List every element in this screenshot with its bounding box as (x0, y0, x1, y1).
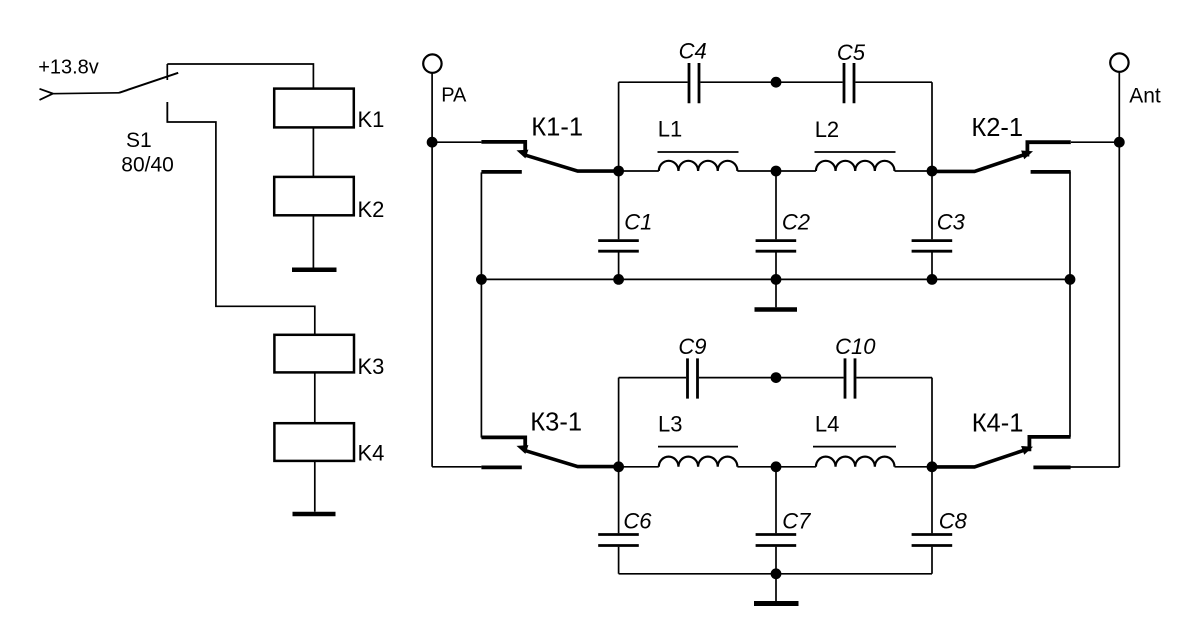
wire К2-1 top contact to Ant line (1071, 141, 1119, 143)
wire top loop right horizontal (855, 81, 932, 83)
relay coil K4 (274, 423, 384, 465)
relay contact К2-1 (932, 114, 1071, 172)
wire rail to ground bottom filter (775, 574, 777, 601)
capacitor C6 (598, 467, 652, 574)
relay contact К3-1 (481, 408, 618, 467)
wire center node to C10 (776, 377, 844, 379)
node rail C2 (771, 274, 782, 285)
wire center node to C5 (776, 81, 843, 83)
inductor L4 (813, 411, 896, 467)
ground under K2 (292, 267, 337, 272)
wire K3 to K4 (314, 372, 316, 423)
relay contact К4-1 (932, 409, 1071, 467)
capacitor C7 (756, 467, 811, 574)
relay coil K2 (274, 177, 384, 222)
relay contact К1-1 (481, 114, 618, 172)
svg-text:C3: C3 (937, 210, 966, 235)
svg-text:C7: C7 (782, 508, 811, 533)
node Ant (1114, 137, 1125, 148)
node main center top filter (771, 166, 782, 177)
svg-text:К2-1: К2-1 (971, 114, 1023, 142)
inductor L2 (815, 117, 896, 171)
ground under C2 (755, 307, 798, 312)
svg-text:C10: C10 (835, 334, 876, 359)
svg-text:C1: C1 (624, 210, 652, 235)
svg-text:C5: C5 (837, 40, 866, 65)
svg-text:C4: C4 (679, 38, 707, 63)
wire bottom loop left horizontal (619, 377, 687, 379)
wire L2 to right node (895, 170, 933, 172)
wire C4 to center node (700, 81, 776, 83)
svg-text:PA: PA (441, 85, 467, 107)
wire S1 bottom contact to K3 (167, 102, 314, 335)
switch S1 (119, 64, 178, 177)
svg-text:L4: L4 (815, 411, 839, 436)
svg-text:K3: K3 (358, 354, 385, 379)
wire top loop left horizontal (619, 81, 688, 83)
wire K1 to K2 (312, 127, 314, 176)
svg-text:+13.8v: +13.8v (38, 56, 99, 78)
node rail C1 (613, 274, 624, 285)
svg-text:C8: C8 (939, 508, 968, 533)
wire bottom loop right vertical (931, 378, 933, 467)
capacitor C2 (756, 171, 810, 279)
wire К2-1 lower contact down to rail and К4-1 (1069, 172, 1071, 437)
wire K4 to ground (314, 461, 316, 512)
node rail C7 (771, 568, 782, 579)
svg-text:K2: K2 (358, 197, 385, 222)
svg-text:L3: L3 (658, 412, 682, 437)
wire top loop right vertical (931, 82, 933, 171)
wire S1 top contact to K1 (167, 64, 313, 89)
svg-text:К3-1: К3-1 (530, 408, 582, 436)
svg-text:80/40: 80/40 (121, 154, 174, 177)
svg-text:C9: C9 (678, 334, 706, 359)
svg-text:Ant: Ant (1129, 84, 1161, 107)
wire L4 to right node (895, 466, 933, 468)
node main center bottom filter (771, 461, 782, 472)
capacitor C9 (678, 334, 706, 399)
ground under C7 (754, 601, 799, 606)
wire main line node to L1 (619, 170, 659, 172)
wire top filter ground rail (481, 278, 1070, 280)
wire main line node to L3 (619, 466, 659, 468)
capacitor C4 (679, 38, 707, 103)
node rail far-right (1065, 274, 1076, 285)
wire К4-1 lower contact to Ant line (1070, 466, 1119, 468)
svg-text:L1: L1 (658, 117, 682, 142)
wire K2 to ground (312, 215, 314, 267)
wire bottom loop right horizontal (856, 377, 932, 379)
terminal PA (423, 54, 467, 106)
wire rail to ground top filter (775, 279, 777, 307)
capacitor C3 (912, 171, 966, 279)
svg-text:S1: S1 (126, 129, 152, 152)
svg-text:K1: K1 (358, 107, 385, 132)
node main left bottom filter (613, 461, 624, 472)
wire PA node to K1-1 contact (432, 141, 481, 143)
wire bottom loop left vertical (618, 378, 620, 467)
wire PA vertical (431, 73, 433, 467)
svg-text:C6: C6 (623, 508, 652, 533)
wire К1-1 lower contact down to rail and К3-1 (480, 172, 482, 437)
wire Ant vertical (1118, 72, 1120, 467)
node main right bottom filter (927, 461, 938, 472)
wire C9 to center node (699, 377, 776, 379)
wire input to S1 (52, 92, 120, 95)
svg-text:К1-1: К1-1 (531, 114, 583, 142)
capacitor C5 (837, 40, 866, 104)
wire PA line to К3-1 lower contact (432, 466, 481, 468)
node main right top filter (927, 166, 938, 177)
relay coil K1 (274, 89, 384, 133)
ground under K4 (293, 512, 336, 517)
node main left top filter (613, 166, 624, 177)
node rail far-left (476, 274, 487, 285)
relay coil K3 (274, 335, 384, 379)
terminal Ant (1110, 53, 1161, 107)
svg-text:C2: C2 (782, 210, 810, 235)
node bottom loop center (771, 372, 782, 383)
node PA (427, 137, 438, 148)
svg-text:L2: L2 (815, 117, 839, 142)
svg-text:K4: K4 (358, 440, 385, 465)
capacitor C8 (912, 467, 968, 574)
node rail C3 (927, 274, 938, 285)
capacitor C10 (835, 334, 876, 399)
input connector arrow (40, 89, 54, 100)
wire bottom filter ground rail (619, 573, 932, 575)
svg-text:К4-1: К4-1 (972, 409, 1024, 437)
wire top loop left vertical (618, 82, 620, 171)
wire L1 to center node (737, 170, 816, 172)
capacitor C1 (598, 171, 652, 279)
node top loop center (771, 77, 782, 88)
inductor L3 (658, 412, 738, 467)
wire L3 to center node (737, 466, 816, 468)
inductor L1 (658, 117, 739, 171)
